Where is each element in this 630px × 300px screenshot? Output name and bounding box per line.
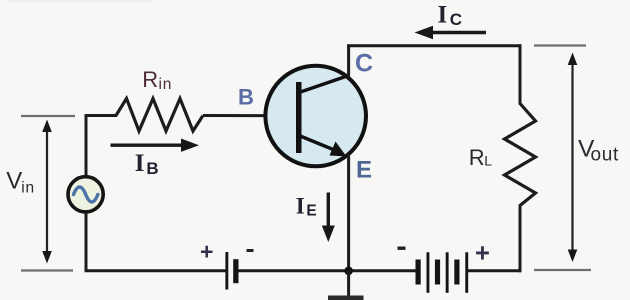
resistor R_L zigzag [505, 104, 536, 206]
svg-text:in: in [21, 179, 35, 196]
wire: bottom right segment [468, 269, 522, 272]
V_in dimension arrow [46, 128, 48, 256]
svg-text:in: in [159, 76, 173, 93]
transistor base bar [296, 82, 302, 153]
wire: bottom left segment [85, 269, 226, 272]
svg-text:I: I [135, 150, 145, 177]
wire: right rail lower [519, 205, 522, 273]
transistor collector line [299, 76, 349, 93]
transistor Q1 circle [265, 66, 366, 167]
current arrow I_B [111, 143, 184, 146]
wire: resistor to base [203, 114, 298, 117]
svg-text:I: I [296, 193, 305, 218]
svg-text:C: C [355, 50, 373, 78]
V_out dimension top tick [534, 44, 586, 46]
wire: top-left horizontal to resistor [85, 114, 118, 117]
svg-text:E: E [306, 203, 316, 220]
AC source sine wave [74, 187, 98, 202]
wire: collector up [347, 44, 350, 77]
battery V_CC: plates [416, 260, 421, 285]
ground symbol [328, 296, 364, 300]
wire: emitter down [347, 154, 350, 271]
wire: left rail vertical [85, 116, 88, 271]
svg-text:I: I [438, 2, 448, 29]
V_out dimension bottom tick [534, 269, 591, 271]
svg-text:B: B [146, 159, 158, 178]
current arrow I_E [327, 193, 330, 229]
wire: top horizontal [347, 44, 521, 47]
svg-text:V: V [6, 168, 22, 195]
battery V_BB left: long plate [225, 252, 228, 290]
svg-text:B: B [238, 85, 254, 110]
svg-text:C: C [450, 10, 462, 29]
transistor emitter line with arrow [299, 136, 338, 152]
current arrow I_C [430, 31, 486, 34]
svg-text:+: + [475, 240, 490, 268]
svg-text:R: R [469, 145, 485, 170]
svg-text:out: out [591, 145, 620, 166]
V_in dimension bottom tick [21, 269, 73, 271]
AC source V1 [68, 177, 103, 212]
svg-text:E: E [356, 157, 372, 184]
label - (left battery) [247, 249, 254, 252]
junction node dot [344, 267, 353, 276]
svg-text:+: + [200, 239, 213, 265]
V_in dimension top tick [21, 115, 75, 117]
svg-text:L: L [484, 153, 492, 169]
wire: bottom middle segment [238, 269, 417, 272]
V_out dimension arrow [571, 60, 573, 254]
wire: ground stem [347, 271, 350, 296]
battery V_BB left: short plate [233, 259, 238, 283]
label - (right battery) [398, 247, 406, 250]
resistor R_in zigzag [116, 99, 203, 132]
wire: right rail upper [519, 44, 522, 104]
svg-text:R: R [142, 67, 158, 92]
